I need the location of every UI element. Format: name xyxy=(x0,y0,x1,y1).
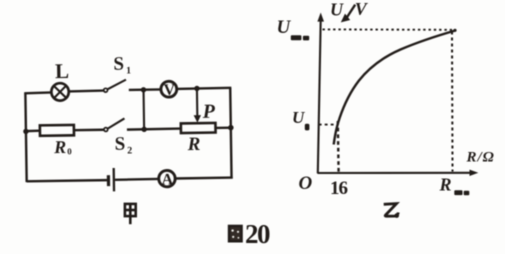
svg-text:R: R xyxy=(186,134,200,155)
label Rmax xyxy=(439,174,470,195)
ammeter A xyxy=(159,170,176,188)
wire voltmeter to right rail xyxy=(177,88,232,89)
junction node c xyxy=(228,125,234,131)
curve U_R(R) xyxy=(334,31,456,145)
junction node e xyxy=(141,127,146,132)
dashed guide Ub horizontal xyxy=(319,124,337,126)
svg-text:S: S xyxy=(114,134,125,155)
svg-text:0: 0 xyxy=(67,146,72,156)
svg-text:2: 2 xyxy=(127,145,132,156)
switch S1 xyxy=(104,80,127,93)
svg-text:U: U xyxy=(292,108,305,127)
wire battery to ammeter xyxy=(115,178,159,181)
label Umax xyxy=(277,17,310,40)
wire S1 to voltmeter xyxy=(129,88,161,91)
label 甲 (glyph drawn) xyxy=(125,204,136,224)
wire S2 to rheostat xyxy=(127,129,181,130)
svg-text:V: V xyxy=(355,0,369,19)
curve end node xyxy=(453,29,456,32)
svg-text:U: U xyxy=(330,0,344,20)
label 图 (glyph drawn) xyxy=(229,226,242,241)
svg-text:1: 1 xyxy=(126,65,131,76)
dashed guide 16 vertical xyxy=(337,121,340,172)
svg-text:R: R xyxy=(439,174,452,194)
junction node b (wiper tap) xyxy=(194,86,199,91)
svg-text:U: U xyxy=(277,17,292,38)
wire right rail xyxy=(230,88,231,179)
wire node a down to S2 row xyxy=(142,90,145,130)
wire rheostat to right rail xyxy=(216,126,232,129)
wire lamp to S1 xyxy=(69,89,104,92)
rheostat R xyxy=(181,123,216,133)
label Ub xyxy=(292,108,309,131)
battery cell xyxy=(108,168,114,191)
svg-text:R: R xyxy=(53,137,66,157)
dashed guide Rmax vertical xyxy=(451,32,454,172)
resistor R0 xyxy=(40,125,74,136)
svg-text:V: V xyxy=(163,82,175,99)
svg-text:P: P xyxy=(202,101,216,123)
svg-text:A: A xyxy=(161,171,173,188)
wire bottom left to battery xyxy=(27,180,107,181)
svg-text:S: S xyxy=(113,54,124,75)
axis label U_R/V xyxy=(330,0,369,22)
svg-text:R/Ω: R/Ω xyxy=(466,149,495,165)
x axis xyxy=(318,170,479,176)
svg-text:O: O xyxy=(299,173,313,194)
svg-text:16: 16 xyxy=(330,178,348,199)
wire left rail xyxy=(25,93,26,183)
y axis xyxy=(317,13,324,174)
wire top-left to lamp xyxy=(24,91,51,94)
switch S2 xyxy=(104,118,125,131)
label 乙 (glyph drawn) xyxy=(384,204,399,218)
dashed guide Umax horizontal xyxy=(323,28,453,30)
voltmeter V xyxy=(161,81,177,99)
wire R0 to S2 xyxy=(74,129,104,132)
junction node a xyxy=(141,87,146,92)
wire ammeter to right rail xyxy=(175,176,232,179)
lamp L xyxy=(51,83,69,101)
wiper arrow to rheostat xyxy=(193,88,201,122)
svg-text:L: L xyxy=(55,59,69,83)
svg-text:20: 20 xyxy=(245,219,270,249)
wire left rail to R0 xyxy=(26,130,40,133)
junction node d (left rail / R0 row) xyxy=(23,129,28,134)
